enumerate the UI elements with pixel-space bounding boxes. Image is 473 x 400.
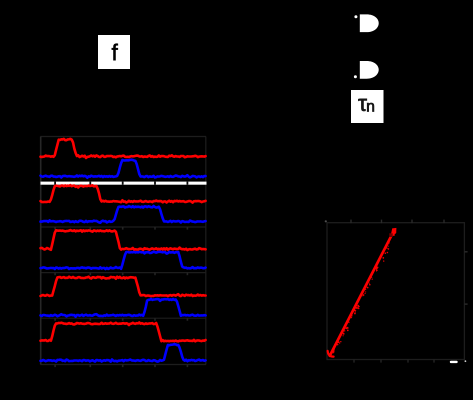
scatter plot top ticks bbox=[351, 220, 444, 224]
waveform panel frame left spine bbox=[40, 137, 42, 365]
waveform panel frame right spine bbox=[205, 137, 207, 365]
white scale dash bbox=[450, 361, 458, 363]
panel 5 red trace bbox=[41, 323, 206, 342]
label f bbox=[112, 44, 118, 61]
box f bbox=[98, 35, 130, 69]
box tau_n bbox=[351, 90, 384, 123]
waveform panel axis ticks bbox=[54, 227, 56, 230]
gate D2 bbox=[360, 61, 379, 79]
panel 3 red trace bbox=[41, 230, 206, 250]
panel 4 red trace bbox=[41, 277, 206, 297]
gate D1 bbox=[360, 14, 379, 32]
scatter fit red line bbox=[330, 231, 394, 356]
white separator axis line bbox=[41, 182, 207, 185]
scatter line top arrow blob bbox=[390, 228, 396, 238]
panel 2 red trace bbox=[41, 185, 206, 203]
gray speck near plot top-left corner bbox=[325, 220, 327, 222]
panel 5 blue trace bbox=[41, 344, 206, 361]
dark red marker square bbox=[389, 233, 392, 237]
panel 1 blue trace bbox=[41, 160, 206, 178]
scatter plot bottom ticks bbox=[354, 360, 434, 363]
waveform panel frames horizontal bbox=[41, 136, 207, 138]
white separator tick marks bbox=[54, 182, 56, 185]
white corner speck bbox=[465, 360, 467, 362]
panel 4 blue trace bbox=[41, 299, 206, 317]
gate D2 input dot bbox=[354, 75, 357, 78]
panel 1 red trace bbox=[41, 139, 206, 158]
panel 3 blue trace bbox=[41, 252, 206, 269]
label tau_n bbox=[358, 99, 366, 111]
gate D1 input dot bbox=[354, 15, 357, 18]
scatter data dots bbox=[389, 242, 390, 243]
panel 2 blue trace bbox=[41, 206, 206, 223]
scatter plot frame bbox=[327, 223, 464, 360]
scatter plot right ticks bbox=[464, 252, 467, 304]
scatter line bottom hook bbox=[328, 351, 334, 357]
